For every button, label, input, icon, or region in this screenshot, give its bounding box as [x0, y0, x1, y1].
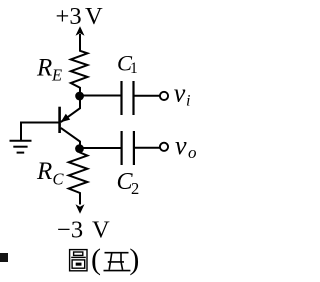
caption character 五: [104, 253, 131, 271]
terminal v_i (open circle): [160, 92, 168, 100]
svg-text:−3: −3: [57, 216, 83, 243]
wire C2 to terminal v_o: [135, 147, 160, 149]
base wire to ground: [21, 123, 59, 141]
svg-text:1: 1: [130, 60, 138, 77]
svg-text:V: V: [92, 216, 110, 243]
wire node E to C1: [80, 95, 121, 97]
transistor Q1 emitter lead with arrow: [61, 96, 80, 123]
capacitor C1: [122, 81, 134, 115]
page mark (dark square at left edge): [0, 253, 8, 262]
resistor R_E: [71, 50, 88, 96]
svg-text:v: v: [174, 79, 186, 108]
svg-text:i: i: [186, 93, 190, 110]
svg-text:R: R: [36, 158, 52, 185]
caption character 圖: [70, 250, 87, 271]
wire node C to C2: [80, 147, 121, 149]
svg-text:+3: +3: [56, 3, 82, 30]
svg-text:C: C: [53, 170, 65, 189]
node C: [75, 144, 84, 153]
resistor R_C: [69, 148, 88, 205]
arrow down to -3 V: [76, 204, 85, 214]
svg-text:(: (: [91, 243, 101, 276]
svg-text:V: V: [85, 3, 103, 30]
svg-text:v: v: [175, 131, 187, 160]
terminal v_o (open circle): [160, 143, 168, 151]
wire C1 to terminal v_i: [135, 95, 160, 97]
capacitor C2: [122, 131, 134, 165]
transistor Q1 collector lead: [61, 128, 80, 148]
svg-text:): ): [129, 243, 139, 276]
svg-text:E: E: [51, 66, 62, 85]
node E: [75, 92, 84, 101]
transistor Q1 base bar: [58, 107, 61, 133]
svg-text:R: R: [36, 55, 52, 82]
svg-text:o: o: [188, 143, 197, 162]
supply arrow up: [76, 26, 85, 51]
svg-text:2: 2: [131, 179, 139, 198]
ground: [10, 141, 32, 153]
